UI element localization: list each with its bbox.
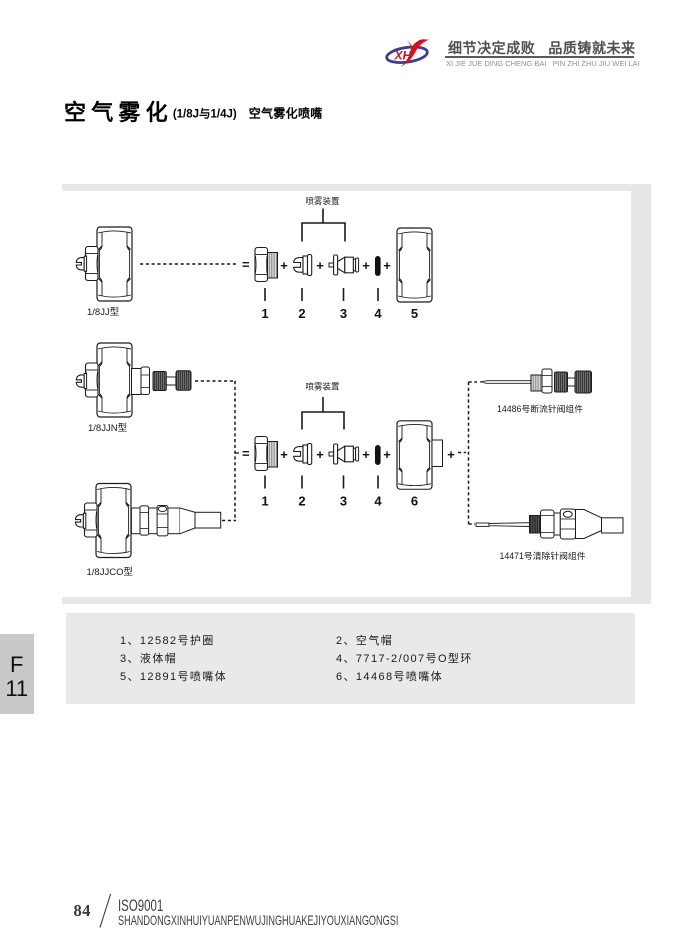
1/8JJN knurled ring (153, 372, 166, 391)
tick 2 row1 (301, 288, 303, 301)
slogan pinyin (446, 59, 640, 68)
svg-text:+: + (280, 447, 288, 462)
assembled nozzle 1/8JJN body (97, 343, 132, 417)
1/8JJCO cone (180, 508, 195, 534)
dashed line row1 (140, 263, 236, 265)
dashed to valves horizontal (458, 452, 466, 454)
footer company (118, 912, 398, 928)
assembled nozzle 1/8JJCO hex nut (85, 503, 98, 537)
label 14471 (499, 550, 585, 561)
footer slash (96, 891, 116, 931)
svg-text:+: + (316, 447, 324, 462)
footer page number (74, 901, 91, 921)
legend item 3 (120, 650, 177, 666)
tick 4 row1 (377, 288, 379, 301)
slogan underline (445, 56, 634, 58)
diagram frame top band (62, 184, 651, 191)
svg-text:14486号断流针阀组件: 14486号断流针阀组件 (497, 403, 583, 414)
part 2 air cap row2 (294, 444, 312, 465)
1/8JJN shaft (166, 377, 176, 385)
svg-text:5: 5 (411, 306, 418, 321)
side tab F11 (0, 634, 34, 714)
dashed vertical junction (234, 381, 236, 521)
number 5 row1 (411, 306, 418, 321)
dashed JJN to junction (195, 380, 236, 382)
svg-text:喷雾装置: 喷雾装置 (305, 196, 340, 206)
label 14486 (497, 403, 583, 414)
legend item 6 (336, 668, 443, 684)
svg-text:+: + (316, 258, 324, 273)
needle 14471 (476, 509, 623, 539)
label 1/8JJN (88, 423, 128, 434)
svg-text:1/8JJN型: 1/8JJN型 (88, 423, 128, 434)
diagram frame right band (631, 184, 651, 604)
tick 2 row2 (301, 476, 303, 489)
svg-text:14471号清除针阀组件: 14471号清除针阀组件 (499, 550, 585, 561)
needle 14486 (480, 369, 592, 393)
number 1 row2 (261, 494, 268, 509)
svg-text:1: 1 (261, 306, 268, 321)
tick 1 row1 (264, 288, 266, 301)
1/8JJCO hex with hole (157, 506, 168, 536)
part 1 retaining ring row2 (255, 437, 278, 471)
page title (64, 95, 323, 127)
plus row2 d (383, 447, 391, 462)
svg-text:3: 3 (340, 306, 347, 321)
part 4 O-ring row2 (375, 445, 381, 465)
plus row1 a (280, 258, 288, 273)
svg-text:=: = (242, 257, 250, 272)
svg-text:=: = (242, 446, 250, 461)
number 6 row2 (411, 494, 418, 509)
number 2 row2 (298, 494, 305, 509)
plus row2 c (362, 447, 370, 462)
bracket row1 (302, 209, 345, 242)
diagram frame bottom band (62, 597, 651, 604)
dashed to needle 14486 (469, 381, 478, 383)
svg-text:4: 4 (374, 306, 382, 321)
svg-text:3: 3 (340, 494, 347, 509)
part 3 fluid cap row2 (329, 444, 359, 464)
plus row1 d (383, 258, 391, 273)
svg-text:+: + (447, 447, 455, 462)
1/8JJCO barrel (131, 508, 180, 534)
part 2 air cap row1 (294, 255, 312, 276)
1/8JJCO hex ring (140, 506, 149, 535)
assembled nozzle 1/8JJ body (97, 227, 132, 301)
equals row1 (242, 257, 250, 272)
plus row1 c (362, 258, 370, 273)
bracket row2 (302, 397, 344, 430)
dashed valves vertical (468, 382, 470, 524)
svg-text:1/8JJ型: 1/8JJ型 (87, 307, 120, 318)
svg-text:1: 1 (261, 494, 268, 509)
svg-text:+: + (280, 258, 288, 273)
tick 3 row2 (343, 476, 345, 489)
1/8JJN needle stem (132, 367, 150, 395)
tick 4 row2 (377, 476, 379, 489)
plus row2 e (447, 447, 455, 462)
svg-text:+: + (383, 447, 391, 462)
part 5 nozzle body row1 (397, 228, 432, 302)
part 6 nozzle body row2 (397, 421, 443, 489)
footer ISO9001 (118, 897, 163, 916)
plus row1 b (316, 258, 324, 273)
bracket row1 label (305, 196, 340, 206)
svg-text:+: + (383, 258, 391, 273)
legend item 4 (336, 650, 473, 666)
svg-text:6: 6 (411, 494, 418, 509)
assembled nozzle 1/8JJN tip (76, 374, 86, 389)
junction tick (235, 452, 239, 454)
equals row2 (242, 446, 250, 461)
svg-text:4: 4 (374, 494, 382, 509)
svg-text:1/8JJCO型: 1/8JJCO型 (87, 567, 134, 578)
label 1/8JJ (87, 307, 120, 318)
part 3 fluid cap row1 (329, 255, 359, 275)
assembled nozzle 1/8JJCO tip (75, 513, 85, 528)
number 3 row1 (340, 306, 347, 321)
1/8JJN knurled knob (176, 371, 191, 391)
legend item 2 (336, 632, 393, 648)
svg-text:2: 2 (298, 494, 305, 509)
dashed JJCO to junction (222, 520, 236, 522)
plus row2 b (316, 447, 324, 462)
number 4 row2 (374, 494, 382, 509)
number 4 row1 (374, 306, 382, 321)
plus row2 a (280, 447, 288, 462)
company logo XH (383, 33, 433, 75)
part 1 retaining ring row1 (255, 248, 278, 282)
bracket row2 label (305, 382, 340, 392)
assembled nozzle 1/8JJN hex nut (86, 363, 99, 397)
legend grey box (66, 613, 635, 704)
legend item 5 (120, 668, 227, 684)
dashed to needle 14471 (469, 523, 476, 525)
number 3 row2 (340, 494, 347, 509)
assembled nozzle 1/8JJCO body (96, 484, 131, 558)
svg-text:+: + (362, 258, 370, 273)
1/8JJCO tube (195, 512, 221, 528)
number 1 row1 (261, 306, 268, 321)
legend item 1 (120, 632, 215, 648)
svg-text:2: 2 (298, 306, 305, 321)
part 4 O-ring row1 (375, 256, 381, 276)
number 2 row1 (298, 306, 305, 321)
tick 1 row2 (264, 476, 266, 489)
slogan chinese (448, 38, 648, 58)
tick 3 row1 (343, 288, 345, 301)
assembled nozzle 1/8JJ hex nut (86, 247, 99, 281)
svg-text:喷雾装置: 喷雾装置 (305, 382, 340, 392)
svg-text:+: + (362, 447, 370, 462)
assembled nozzle 1/8JJ tip (76, 256, 86, 271)
label 1/8JJCO (87, 567, 134, 578)
